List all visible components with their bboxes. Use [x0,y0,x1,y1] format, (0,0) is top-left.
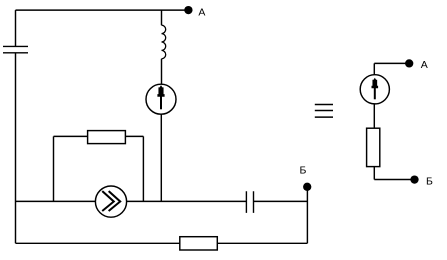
wire subloop top left [54,135,88,137]
wire inductor branch top [161,10,163,25]
current source J1 [146,84,176,114]
arrow of source J2 [372,78,379,100]
wire subloop left vertical [53,136,55,201]
converter element U1 (circle with chevrons) [95,186,126,217]
wire subloop top right [125,135,143,137]
wire bottom right [217,242,307,244]
capacitor C1 (left vertical) [3,46,28,52]
wire main horizontal middle [127,200,247,202]
wire bottom left [16,242,180,244]
wire inductor to source [161,59,163,84]
wire source to resistor [373,104,375,128]
wire subloop right vertical [142,136,144,201]
chevrons of U1 [103,192,120,211]
svg-text:Б: Б [300,165,307,177]
node B (left) [303,183,311,191]
wire source to main [160,114,162,201]
capacitor C2 [246,191,253,213]
svg-text:А: А [421,59,428,71]
node B (right) [410,175,418,183]
svg-text:Б: Б [426,176,433,188]
wire right circuit top [374,63,409,74]
resistor R1 [88,131,126,144]
arrow of source J1 [157,85,164,109]
wire resistor to node B [374,167,410,180]
wire main horizontal right [254,200,308,202]
equivalence symbol [315,105,333,118]
resistor R3 (right) [367,128,380,166]
wire top horizontal (left circuit) [16,9,189,11]
inductor L1 [162,25,166,59]
wire left vertical upper [15,10,17,46]
svg-text:А: А [198,6,205,18]
node A (right) [405,59,413,67]
resistor R2 [180,237,218,250]
node A (left) [184,6,192,14]
wire node B vertical [306,187,308,243]
wire left vertical lower [15,53,17,244]
current source J2 (right) [360,75,389,104]
wire main horizontal left [16,200,96,202]
